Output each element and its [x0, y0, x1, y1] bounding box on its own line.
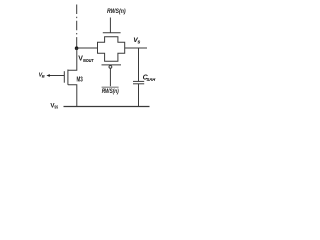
- svg-text:s: s: [138, 39, 141, 45]
- wire /RWS(n) gate stub: [109, 68, 111, 86]
- wire bitline into node: [76, 40, 78, 48]
- transmission gate top gate bar: [103, 32, 121, 34]
- wire dash-dot bitline: [76, 5, 78, 41]
- svg-text:SS: SS: [54, 105, 58, 110]
- transmission gate body: [98, 37, 125, 62]
- svg-text:M3: M3: [77, 74, 83, 83]
- transistor M3 gate lead: [49, 75, 65, 77]
- svg-text:RWS(n): RWS(n): [107, 8, 126, 15]
- svg-text:RWS(n): RWS(n): [102, 89, 119, 95]
- VSS rail: [64, 106, 150, 108]
- svg-text:B: B: [42, 74, 45, 79]
- arrowhead on VB input: [46, 74, 49, 77]
- transistor M3 channel bar: [67, 70, 69, 85]
- wire transmission gate to Vs node: [125, 47, 147, 49]
- svg-text:BOUT: BOUT: [83, 58, 94, 63]
- transmission gate bottom gate bar: [102, 64, 122, 66]
- transistor M3 source lead: [68, 85, 77, 107]
- capacitor CSAH plates: [133, 80, 144, 82]
- wire Vs node to capacitor: [138, 48, 140, 81]
- wire node to transmission gate: [78, 47, 98, 49]
- svg-text:SAH: SAH: [147, 77, 156, 82]
- overline of /RWS(n) label: [102, 86, 119, 88]
- wire capacitor to VSS rail: [138, 84, 140, 107]
- wire RWS(n) gate stub: [109, 18, 111, 33]
- transistor M3 drain lead: [68, 48, 77, 70]
- bubble on bottom gate: [109, 66, 112, 69]
- node VBOUT junction dot: [75, 46, 79, 50]
- transistor M3 gate bar: [63, 71, 65, 83]
